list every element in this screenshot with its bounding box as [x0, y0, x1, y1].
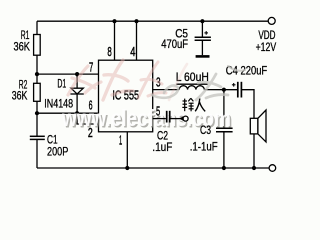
- inductor L 60uH: [176, 84, 207, 89]
- svg-text:200P: 200P: [47, 145, 68, 159]
- wire pin2 stub: [77, 113, 98, 124]
- arrowhead on input wire: [179, 116, 183, 121]
- wire C5 bottom lead: [201, 40, 203, 55]
- svg-text:C2: C2: [157, 129, 168, 143]
- node pin4 on rail: [134, 19, 138, 23]
- svg-text:5: 5: [156, 104, 160, 119]
- plus sign of C4: [232, 83, 236, 87]
- watermark www.elecfans.com embossed text: [61, 105, 232, 132]
- wire C3 bottom lead: [223, 132, 225, 168]
- wire top rail VDD: [37, 20, 268, 22]
- IC U1 555 timer box: [99, 60, 153, 132]
- wire C1 bottom lead: [36, 139, 38, 168]
- wire L to C4: [204, 89, 237, 91]
- plus sign of C5: [204, 31, 208, 35]
- node pin8 on rail: [112, 19, 116, 23]
- node ground terminal circle: [269, 165, 276, 172]
- value label input (Chinese 输入) drawn as strokes: [182, 98, 205, 111]
- watermark gray swirl strokes: [152, 66, 245, 100]
- node R2/pin6/C1 junction: [35, 111, 39, 115]
- capacitor C2: [167, 111, 170, 123]
- node C3 on ground rail: [222, 166, 226, 170]
- node C5 on rail: [200, 19, 204, 23]
- svg-text:.1-1uF: .1-1uF: [190, 139, 218, 153]
- node D1 top junction: [75, 72, 79, 76]
- wire pin3: [153, 89, 180, 91]
- wire pin8: [114, 21, 116, 60]
- capacitor C3: [216, 128, 233, 132]
- wire pin6: [37, 112, 99, 114]
- diode D1: [70, 74, 83, 113]
- capacitor C4: [238, 82, 242, 98]
- wire C5 top lead: [201, 21, 203, 37]
- speaker LS1: [250, 110, 266, 168]
- svg-text:8: 8: [107, 44, 111, 59]
- wire input lead: [170, 118, 184, 120]
- svg-text:470uF: 470uF: [161, 37, 188, 51]
- resistor R1: [34, 35, 41, 56]
- svg-text:1: 1: [119, 133, 122, 148]
- wire R2 bottom lead: [36, 101, 38, 113]
- node VDD terminal circle: [268, 17, 275, 24]
- svg-text:C3: C3: [200, 123, 211, 137]
- svg-text:C4 220uF: C4 220uF: [226, 64, 267, 78]
- wire R2 top lead: [36, 74, 38, 83]
- node R1/R2/pin7 junction: [35, 72, 39, 76]
- capacitor C1: [30, 136, 45, 139]
- wire pin7: [37, 73, 99, 75]
- node pin1 on ground rail: [125, 166, 129, 170]
- wire pin1: [126, 132, 128, 168]
- node L/C4/C3 junction: [222, 88, 226, 92]
- wire R1 bottom lead: [36, 55, 38, 74]
- node D1 bottom junction: [75, 111, 79, 115]
- capacitor C5: [195, 37, 211, 40]
- svg-text:7: 7: [89, 59, 93, 74]
- wire C4 to speaker: [241, 90, 254, 119]
- svg-text:+12V: +12V: [256, 40, 277, 54]
- node speaker on ground rail: [252, 166, 256, 170]
- svg-text:36K: 36K: [14, 40, 31, 54]
- wire bottom ground rail: [37, 167, 269, 169]
- svg-text:4: 4: [130, 44, 135, 59]
- wire pin4: [136, 21, 138, 60]
- node input terminal circle: [183, 116, 188, 121]
- svg-text:2: 2: [88, 125, 93, 140]
- watermark pink calligraphy strokes: [68, 60, 187, 100]
- resistor R2: [34, 83, 41, 101]
- svg-text:D1: D1: [57, 76, 66, 90]
- wire C1 top lead: [36, 113, 38, 136]
- svg-text:36K: 36K: [12, 88, 28, 102]
- ground bar below C5: [196, 55, 210, 58]
- wire C3 branch top: [223, 90, 225, 129]
- wire R1 top lead: [36, 21, 38, 34]
- wire pin5: [153, 118, 166, 120]
